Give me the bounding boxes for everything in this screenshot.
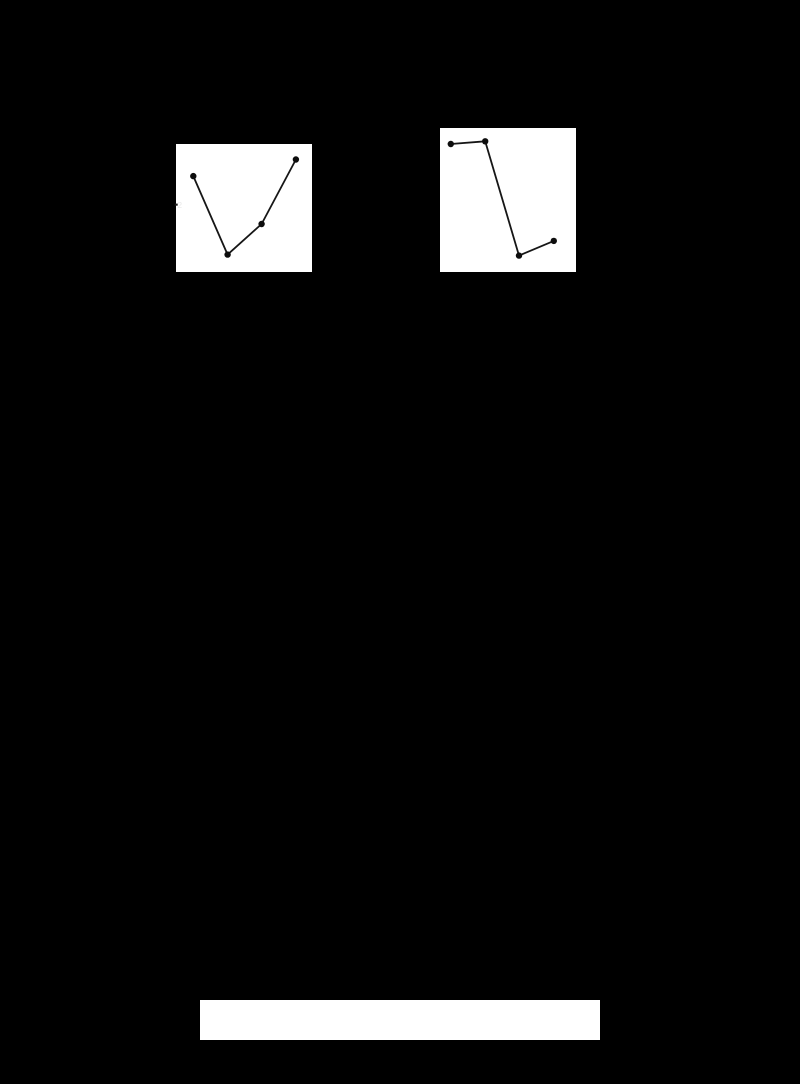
figure 2 data point 4 [551, 238, 557, 244]
figure 1 white panel (left plot) [176, 144, 312, 272]
bottom white bar [200, 1000, 600, 1040]
figure 2 white panel (right plot) [440, 128, 576, 272]
svg-text:2: 2 [177, 200, 182, 210]
figure 2 data line [451, 141, 554, 255]
figure 2 data point 2 [482, 138, 488, 144]
figure 2 data point 3 [516, 252, 522, 258]
figure 1 data point 1 [190, 173, 196, 179]
figure 1 data point 4 [293, 156, 299, 162]
figure 2 data point 1 [448, 141, 454, 147]
figure 1 data point 2 [224, 251, 230, 257]
figure 1 y-axis tick [175, 204, 178, 206]
figure 1 data point 3 [258, 221, 264, 227]
figure 1 data line [193, 160, 296, 255]
